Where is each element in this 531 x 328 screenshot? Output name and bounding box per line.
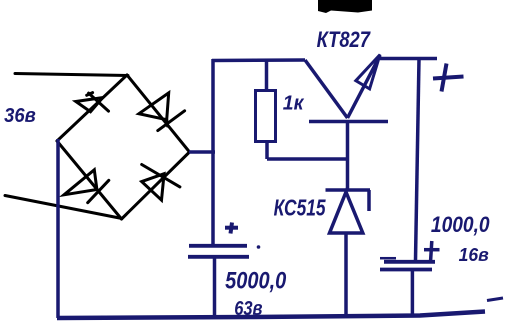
svg-text:КС515: КС515: [274, 195, 327, 221]
svg-text:КТ827: КТ827: [317, 27, 372, 52]
svg-text:1000,0: 1000,0: [431, 212, 490, 237]
svg-text:1к: 1к: [283, 92, 304, 114]
svg-text:63в: 63в: [234, 298, 262, 320]
svg-text:16в: 16в: [459, 245, 489, 266]
svg-text:36в: 36в: [4, 105, 36, 127]
svg-text:5000,0: 5000,0: [225, 267, 286, 294]
